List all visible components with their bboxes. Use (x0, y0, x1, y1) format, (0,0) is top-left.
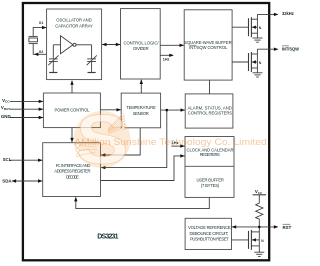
arrowhead: into alarm registers (181, 108, 186, 111)
arrowhead: temp line into I2C (101, 153, 106, 156)
resistor R1 pullup (256, 202, 263, 220)
wire: VBAT pin (10, 108, 43, 110)
overline on INT in sqw block (189, 44, 196, 46)
body arrow Q1 (252, 26, 256, 29)
wire: GND pin (10, 117, 43, 119)
ground bar under C1 (49, 72, 57, 74)
arrowhead: SDA outward (12, 179, 17, 182)
transistor Q2 (INT/SQW driver) (232, 61, 248, 63)
arrowhead: VCC into power control (39, 100, 44, 103)
block: alarm, status and control registers (185, 94, 233, 128)
block: I2C interface and address register decode (43, 143, 101, 197)
block: square-wave buffer / INT-SQW control (184, 10, 232, 80)
block: control logic / divider (121, 9, 161, 79)
body arrow Q2 (252, 60, 256, 63)
arrowhead: RST output (274, 225, 279, 228)
arrowhead: user buffer return up into I2C (74, 197, 77, 202)
block: temperature sensor (121, 93, 160, 128)
arrowhead: osc-ctrl left (102, 43, 107, 46)
svg-text:32kHz: 32kHz (282, 11, 295, 16)
svg-text:SCL: SCL (3, 157, 12, 162)
wire: X2 oscillator to crystal (33, 44, 46, 55)
svg-text:SDA: SDA (2, 179, 12, 184)
ground for Q1 (253, 37, 263, 39)
outer chip boundary box (23, 3, 269, 260)
watermark logo (74, 100, 267, 178)
wire: power control down to I2C (71, 128, 73, 143)
wire: node junction down-left into I2C (101, 110, 167, 168)
wire: VCC pin (10, 100, 43, 102)
svg-text:REGISTERS: REGISTERS (200, 152, 220, 157)
wire: 32kHz output (257, 13, 277, 15)
svg-text:DS3231: DS3231 (97, 233, 118, 240)
arrowhead: INT/SQW output (274, 48, 279, 51)
arrowhead: junction line into I2C (101, 166, 106, 169)
wire: INT/SQW output (257, 48, 277, 50)
svg-text:X2: X2 (39, 50, 44, 54)
svg-text:DEBOUNCE CIRCUIT;: DEBOUNCE CIRCUIT; (190, 231, 229, 236)
body arrow Q3 (252, 238, 256, 241)
wire: temp sensor up to control logic (140, 80, 142, 93)
svg-text:USER BUFFER: USER BUFFER (196, 177, 224, 182)
node: junction dot temp/alarm (166, 109, 169, 112)
op-amp inverter in oscillator (61, 36, 74, 54)
wire: power control to temp sensor (100, 109, 120, 111)
ground for Q3 (254, 251, 264, 253)
svg-text:INT/SQW: INT/SQW (282, 47, 300, 52)
svg-text:VCC: VCC (2, 98, 10, 104)
capacitor C1 branch (52, 45, 54, 59)
pin labels left side (1, 21, 179, 183)
crystal Y1 plates (29, 35, 38, 37)
svg-text:VCC: VCC (255, 189, 263, 195)
arrowhead: osc-ctrl right (116, 43, 121, 46)
transistor Q1 (32kHz driver) (232, 26, 248, 28)
wire: SCL pin (10, 159, 43, 161)
capacitor C2 branch (91, 45, 93, 59)
wire: inverter input (53, 44, 60, 46)
wire: SDA pin (12, 180, 42, 182)
svg-text:AMillion Sunshine Technology C: AMillion Sunshine Technology Co. Limited (74, 137, 266, 147)
arrowhead: X1 into oscillator (42, 26, 47, 29)
node: RST junction dot (258, 226, 261, 229)
arrowhead: SDA into I2C (38, 179, 43, 182)
arrowhead: SCL into I2C (38, 159, 43, 162)
svg-text:X1: X1 (39, 21, 44, 25)
watermark disc (74, 111, 131, 168)
svg-text:VOLTAGE REFERENCE;: VOLTAGE REFERENCE; (188, 225, 232, 230)
wire: RST line (232, 226, 278, 228)
wire: X1 crystal to oscillator (33, 28, 46, 37)
wire: 1Hz stub into clock registers (171, 145, 184, 147)
arrowhead: I2C into clock registers (180, 154, 185, 157)
svg-text:TEMPERATURE: TEMPERATURE (126, 105, 156, 110)
ground bar under C2 (88, 72, 96, 74)
arrowhead: VBAT into power control (39, 108, 44, 111)
svg-text:1Hz: 1Hz (163, 58, 170, 62)
wire: temp sensor to alarm registers (161, 109, 185, 111)
wire: oscillator-control logic bus (102, 44, 120, 46)
svg-text:(7 BYTES): (7 BYTES) (201, 183, 220, 188)
arrowhead: down into I2C (70, 138, 73, 143)
oscillator internals (48, 36, 97, 73)
svg-text:OSCILLATOR AND: OSCILLATOR AND (56, 17, 91, 22)
arrowhead: 1Hz stub (169, 54, 174, 57)
svg-text:CONTROL REGISTERS: CONTROL REGISTERS (188, 110, 233, 115)
wire: user buffer return to I2C (76, 197, 210, 208)
svg-text:VBAT: VBAT (1, 105, 10, 111)
arrowhead: up into control logic (140, 80, 143, 85)
wire: 1Hz stub from divider (160, 54, 173, 56)
block: oscillator and capacitor array (47, 9, 102, 80)
wire: temp sensor down-left into I2C (101, 128, 140, 155)
svg-text:CONTROL LOGIC/: CONTROL LOGIC/ (124, 40, 160, 45)
transistor Q3 (reset pulldown) (232, 239, 249, 241)
svg-text:PUSHBUTTON RESET: PUSHBUTTON RESET (190, 237, 229, 242)
crystal Y1 body (29, 38, 38, 42)
wire: control logic to sqw buffer (160, 44, 184, 46)
block: voltage reference, debounce circuit, pushbutton reset (185, 218, 231, 249)
svg-text:CAPACITOR ARRAY: CAPACITOR ARRAY (55, 23, 93, 28)
block: clock and calendar registers + user buffer (185, 137, 234, 198)
ground for Q2 (253, 72, 263, 74)
block: power control (43, 93, 100, 128)
arrowhead: 1Hz into clock registers (180, 144, 185, 147)
wire: I2C to clock registers (101, 156, 185, 181)
arrowhead: RST into vref block (232, 225, 237, 228)
watermark circuit dots top right (108, 114, 125, 134)
power rail VCC for reset pullup (253, 194, 266, 196)
arrowhead: 32kHz output (274, 13, 279, 16)
wire: sqw buffer down to alarm registers (209, 80, 211, 94)
arrowhead: up into oscillator (70, 80, 73, 85)
arrowhead: ctrl to sqw (180, 44, 185, 47)
reset circuit (232, 195, 278, 257)
svg-text:GND: GND (1, 114, 11, 119)
svg-text:INT/SQW CONTROL: INT/SQW CONTROL (189, 45, 228, 50)
arrowhead: X2 toward crystal (34, 53, 39, 56)
svg-text:DIVIDER: DIVIDER (133, 46, 148, 51)
wire: power control up to oscillator (71, 81, 73, 93)
arrowhead: GND into power control (39, 116, 44, 119)
svg-text:SENSOR: SENSOR (133, 111, 149, 116)
watermark circuit dots bottom left (76, 144, 97, 157)
arrowhead: into temp sensor (117, 108, 122, 111)
output transistors (232, 14, 278, 77)
svg-text:RST: RST (283, 225, 292, 230)
wire: inverter output (76, 44, 92, 46)
